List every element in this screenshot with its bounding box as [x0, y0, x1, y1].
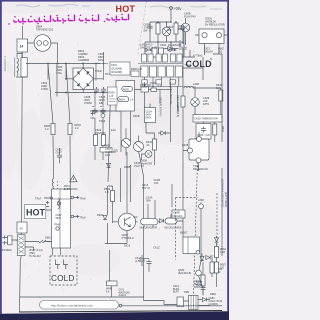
- wire: AC row to bridge: [26, 43, 100, 80]
- lamp circle D60H: [145, 151, 152, 158]
- svg-text:(1.6): (1.6): [135, 259, 140, 263]
- small circle component D604b: [134, 142, 144, 152]
- wire: main left vertical (frame): [21, 26, 23, 240]
- secondary winding curls inside: [58, 198, 59, 209]
- svg-text:120: 120: [220, 267, 225, 270]
- svg-text:56V 47: 56V 47: [142, 187, 151, 190]
- module boxes row: [141, 66, 183, 77]
- resistor R640 vertical: [219, 90, 223, 101]
- svg-text:R620: R620: [178, 27, 185, 31]
- svg-text:BLRT: BLRT: [173, 291, 180, 294]
- polarity mark: [91, 112, 95, 119]
- test point arrows right edge: [71, 196, 74, 199]
- svg-text:04: 04: [20, 227, 24, 231]
- svg-text:C613 PLATN 470: C613 PLATN 470: [159, 97, 162, 117]
- wire: bridge connections: [66, 64, 103, 93]
- TR40 circle inside: [56, 227, 59, 230]
- svg-text:C64T: C64T: [56, 151, 63, 155]
- svg-text:T681: T681: [184, 290, 190, 294]
- svg-text:10Z: 10Z: [218, 50, 223, 53]
- primary winding curls: [52, 179, 53, 190]
- svg-text:470/56: 470/56: [84, 101, 92, 105]
- wire: x20.5 drop to bottom: [20, 256, 22, 258]
- zener diode D611: [161, 131, 165, 135]
- pin-pair boxes above band: [142, 54, 183, 62]
- bridge rectifier D601-D604: [65, 63, 103, 93]
- svg-text:http://ladytn.mondiaderade.com: http://ladytn.mondiaderade.com: [51, 303, 94, 307]
- svg-text:(2C3A6B): (2C3A6B): [111, 71, 122, 74]
- relay module with terminals: [189, 139, 209, 160]
- svg-text:TRuT: TRuT: [35, 197, 42, 201]
- faint pencil scribbles top: [16, 4, 222, 9]
- svg-text:D68A: D68A: [210, 293, 216, 296]
- test point TRu6: [101, 114, 105, 118]
- transformer T681: [189, 296, 199, 310]
- wire: right edge vertical: [221, 88, 223, 256]
- resistor chain x216.5: [215, 247, 219, 258]
- svg-text:R606 0.47: R606 0.47: [131, 68, 143, 71]
- HOT label boxed (left middle): [24, 205, 46, 219]
- svg-text:C61Z: C61Z: [154, 247, 161, 250]
- svg-text:AuG12: AuG12: [119, 294, 127, 297]
- resistor chain bottom right: [210, 262, 214, 273]
- svg-text:R622(3.9): R622(3.9): [176, 106, 179, 117]
- wire: drops from block: [121, 111, 131, 152]
- svg-text:C665: C665: [197, 133, 204, 137]
- svg-text:R641: R641: [221, 126, 224, 133]
- resistor R606: [131, 71, 139, 77]
- svg-text:D606: D606: [151, 82, 158, 85]
- svg-text:C603: C603: [160, 43, 167, 47]
- svg-text:COLD: COLD: [51, 274, 75, 283]
- wire: x203 lower vertical: [200, 213, 202, 262]
- wire: band top rail: [96, 52, 183, 81]
- wire: +25V rail: [150, 22, 183, 43]
- label C601 block: [110, 62, 130, 75]
- transistor Q603 circle: [191, 98, 200, 107]
- svg-text:TRFV500Y220: TRFV500Y220: [36, 28, 54, 32]
- svg-text:D613: D613: [124, 245, 131, 248]
- wire: x120 x127 verticals: [121, 152, 128, 215]
- wire: x109 vertical: [108, 93, 111, 244]
- svg-text:470W: 470W: [41, 87, 48, 91]
- node dots: [47, 63, 67, 65]
- line filter box: [17, 235, 25, 256]
- AC plug: [2, 236, 8, 245]
- svg-text:MUCURUGAGIR: MUCURUGAGIR: [140, 226, 158, 229]
- svg-text:E13: E13: [111, 128, 116, 132]
- svg-text:(POWER): (POWER): [1, 249, 12, 252]
- svg-text:COLD: COLD: [186, 59, 213, 69]
- svg-text:D60B: D60B: [133, 114, 140, 118]
- svg-text:58A: 58A: [146, 199, 151, 203]
- capacitor C641: [57, 153, 62, 159]
- word 3 'al-ajhiza': [53, 15, 74, 21]
- L690 circle: [199, 204, 204, 209]
- switch contacts: [40, 240, 52, 243]
- wire: filter to switch row: [25, 242, 39, 251]
- output diode top right: [215, 238, 219, 242]
- wire: cap bottom rail: [90, 110, 120, 112]
- transistor Q601 power: [118, 213, 135, 230]
- svg-text:1.J5: 1.J5: [109, 95, 114, 98]
- wire: AC row stub into T601: [44, 241, 52, 243]
- wire: drops below band: [140, 77, 183, 87]
- wire: x66 long vertical: [66, 64, 70, 190]
- main filter caps C606 C608: [92, 108, 97, 114]
- coupler box L602: [165, 218, 177, 224]
- svg-text:5.1: 5.1: [158, 85, 162, 88]
- svg-text:680: 680: [167, 28, 172, 32]
- svg-text:1879: 1879: [203, 102, 209, 106]
- svg-text:EB: EB: [99, 101, 103, 105]
- diode D606: [151, 88, 157, 92]
- small box 04 on left line: [17, 222, 27, 233]
- svg-text:L690: L690: [198, 198, 204, 202]
- x202 column: diode, transistor, cap: [200, 256, 204, 260]
- svg-text:5647: 5647: [56, 217, 62, 220]
- magenta arabic headline (drawn strokes): [8, 14, 128, 25]
- wire: T601 bottom drops: [53, 248, 61, 256]
- svg-text:600V: 600V: [146, 117, 152, 120]
- svg-text:D600: D600: [97, 213, 104, 217]
- URL watermark pill: [40, 301, 119, 310]
- wire verticals x148 x157 x169: [145, 82, 178, 142]
- capacitor block C61H: [145, 108, 156, 123]
- svg-text:330uZH: 330uZH: [204, 50, 213, 53]
- wire: staircase into T681: [144, 227, 189, 305]
- fuse rect vertical: [21, 58, 27, 78]
- wire: bottom of bridge bus: [55, 64, 113, 97]
- wire: lower rail right: [213, 54, 222, 88]
- relay box 14: [17, 39, 28, 52]
- transformer T601 body: [52, 189, 71, 248]
- IC603 5V regulator box with terminals: [199, 29, 224, 44]
- svg-text:2.2R: 2.2R: [220, 251, 225, 254]
- wire joins under transformer: [16, 52, 27, 77]
- svg-text:TRu0: TRu0: [80, 198, 87, 201]
- wire: x183 long vertical: [183, 48, 203, 238]
- resistor R608: [141, 87, 149, 92]
- wire: y243 horizontal: [105, 243, 127, 245]
- svg-text:5V REGULATOR: 5V REGULATOR: [205, 23, 225, 27]
- svg-text:D681: D681: [45, 237, 51, 240]
- page background: [0, 0, 229, 320]
- word 4 'al-iliktroniya' (leftmost): [14, 16, 51, 22]
- svg-text:1.2: 1.2: [75, 126, 79, 130]
- resistor R602 on x53: [51, 124, 55, 135]
- svg-text:MUCIOLIGUIDE: MUCIOLIGUIDE: [165, 227, 182, 229]
- transformer small T602: [152, 48, 157, 57]
- line transformer T801 windings: [17, 54, 22, 76]
- relay box RL601: [183, 237, 200, 254]
- wire: center verticals: [131, 153, 156, 221]
- svg-text:BUGDA: BUGDA: [174, 215, 183, 218]
- svg-text:TRu6: TRu6: [99, 119, 106, 123]
- connector box before T681: [177, 297, 184, 307]
- resistors R613 R614: [94, 135, 98, 146]
- wire: x48 long vertical: [48, 64, 54, 179]
- resistor R616: [107, 281, 118, 286]
- R/C cluster top middle-right: [145, 21, 184, 57]
- caps column x184: [181, 45, 186, 51]
- svg-text:14: 14: [20, 45, 24, 49]
- COLD dashed box bottom left: [50, 256, 77, 285]
- svg-text:104: 104: [154, 181, 159, 185]
- resistor R620: [174, 23, 178, 34]
- MAIN SCHEMATIC placeholder group: [0, 0, 1, 1]
- wire: long bottom bus: [20, 296, 144, 298]
- svg-text:TRu0: TRu0: [80, 217, 87, 220]
- svg-text:DEGENKUN: DEGENKUN: [193, 167, 208, 171]
- +25V supply node: [170, 7, 173, 22]
- svg-text:(5A1316-B): (5A1316-B): [178, 271, 191, 275]
- paper crease line: [138, 1, 147, 56]
- diode D600 on x107.5: [103, 215, 107, 219]
- svg-text:WIRT: WIRT: [194, 286, 201, 289]
- wire: x95 vertical: [94, 93, 96, 161]
- svg-text:R604: R604: [119, 99, 126, 102]
- svg-text:8.2: 8.2: [216, 86, 220, 90]
- wire: base row with opto couplers: [113, 221, 138, 223]
- resistor R603 on x70: [68, 124, 72, 135]
- control block box: [116, 81, 135, 112]
- svg-text:DAGJGJ1AAB: DAGJGJ1AAB: [140, 46, 157, 50]
- diode D605: [168, 47, 172, 51]
- diode between: [159, 219, 163, 223]
- svg-text:1.2: 1.2: [45, 127, 49, 131]
- svg-text:TU-5A-6A7: TU-5A-6A7: [29, 255, 42, 258]
- svg-text:CH0888Z: CH0888Z: [78, 58, 90, 62]
- svg-text:R605: R605: [123, 88, 130, 91]
- wire: dashed cold boundary vertical: [216, 193, 218, 255]
- wire: bottom drops: [144, 225, 153, 228]
- resistor R604 inside: [118, 97, 129, 102]
- svg-text:47 TBw2: 47 TBw2: [193, 55, 203, 58]
- svg-text:(EXT T-BASE): (EXT T-BASE): [224, 192, 227, 208]
- diode D684: [206, 256, 210, 260]
- svg-text:(1.8): (1.8): [205, 133, 210, 137]
- degauss posistor circle: [34, 35, 51, 52]
- thermistor long box: [193, 115, 222, 123]
- svg-text:+25V: +25V: [174, 7, 182, 11]
- svg-text:PLAY 47: PLAY 47: [134, 164, 145, 168]
- D60A box: [172, 210, 185, 218]
- wire: TRuT line to HOT box: [44, 198, 52, 210]
- svg-text:D61B THERMISTOR: D61B THERMISTOR: [195, 118, 219, 121]
- scan borders: [0, 0, 229, 2]
- svg-text:TLF2209Y220: TLF2209Y220: [3, 56, 6, 72]
- schematic frame bottom line: [19, 311, 222, 313]
- wire: left bottom vertical to frame: [19, 258, 22, 312]
- svg-text:33A/3VD: 33A/3VD: [95, 131, 106, 135]
- wire: jog to R610: [146, 122, 155, 165]
- svg-text:D608: D608: [124, 165, 131, 169]
- wire: x203 vertical: [202, 57, 204, 80]
- svg-text:41.2: 41.2: [105, 153, 111, 157]
- wire: x103 vertical: [102, 93, 104, 161]
- svg-text:ELETRONO: ELETRONO: [64, 188, 78, 191]
- svg-text:1.8: 1.8: [105, 190, 109, 194]
- svg-text:PLAY/PAY: PLAY/PAY: [184, 15, 196, 19]
- lamp circle with cross: [162, 27, 171, 36]
- resistor R605 inside: [122, 87, 133, 92]
- C665 box: [196, 124, 211, 140]
- resistor R610: [153, 139, 157, 150]
- thermistor circle: [121, 138, 130, 147]
- svg-text:*: *: [210, 58, 212, 64]
- svg-text:C610 160V 220: C610 160V 220: [169, 87, 172, 105]
- inductor L608: [184, 87, 193, 89]
- svg-text:DAGDGNT: DAGDGNT: [168, 43, 181, 47]
- polarity marks left of T601: [46, 201, 49, 207]
- capacitor C609a: [147, 24, 152, 30]
- word 1 'alghatrifi' (rightmost): [107, 14, 129, 20]
- wire: box14 to posistor: [28, 42, 58, 44]
- resistor R612: [111, 191, 115, 202]
- wire: x109 to R616: [110, 250, 112, 281]
- word 2 'lisiyanat': [79, 15, 98, 21]
- svg-text:R61B: R61B: [182, 144, 189, 147]
- pin labels row: [142, 80, 176, 84]
- warning triangle: [70, 175, 77, 182]
- svg-text:TR40: TR40: [54, 224, 61, 227]
- svg-text:5W: 5W: [144, 29, 148, 33]
- svg-text:1.4: 1.4: [130, 99, 134, 102]
- resistor R622 on x183: [181, 96, 185, 107]
- capacitor C617 column x142: [139, 255, 144, 266]
- wire: lower rail: [145, 42, 183, 56]
- svg-text:PTG001-C: PTG001-C: [122, 236, 135, 240]
- capacitor C617 stub: [144, 258, 150, 260]
- svg-text:R600: R600: [104, 144, 111, 148]
- resistor R621: [156, 23, 160, 34]
- coupler box L601: [141, 219, 159, 225]
- svg-text:BL607: BL607: [180, 231, 188, 235]
- svg-text:HOT: HOT: [26, 208, 46, 218]
- scan noise: [0, 0, 229, 312]
- svg-text:570uF: 570uF: [95, 70, 103, 73]
- tuner stub: [198, 168, 200, 172]
- svg-text:HOT: HOT: [116, 4, 136, 14]
- output diode D684: [202, 298, 206, 302]
